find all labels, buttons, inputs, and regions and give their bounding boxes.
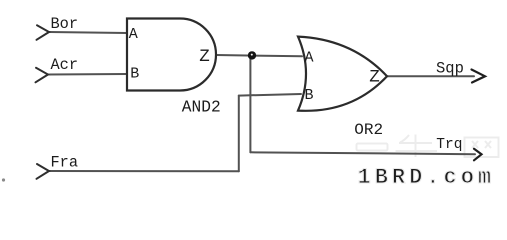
- svg-text:Acr: Acr: [51, 56, 79, 74]
- svg-text:Fra: Fra: [51, 153, 79, 171]
- svg-text:OR2: OR2: [354, 121, 383, 139]
- svg-text:B: B: [305, 87, 314, 104]
- svg-text:B: B: [130, 66, 139, 83]
- svg-text:A: A: [129, 26, 138, 43]
- svg-text:AND2: AND2: [182, 98, 221, 116]
- svg-text:Bor: Bor: [51, 15, 79, 33]
- svg-text:A: A: [305, 49, 314, 66]
- svg-text:Trq: Trq: [436, 137, 462, 153]
- svg-text:Sqp: Sqp: [436, 60, 464, 78]
- svg-text:Z: Z: [199, 47, 210, 67]
- svg-text:1BRD.com: 1BRD.com: [358, 165, 496, 187]
- svg-text:Z: Z: [369, 68, 380, 88]
